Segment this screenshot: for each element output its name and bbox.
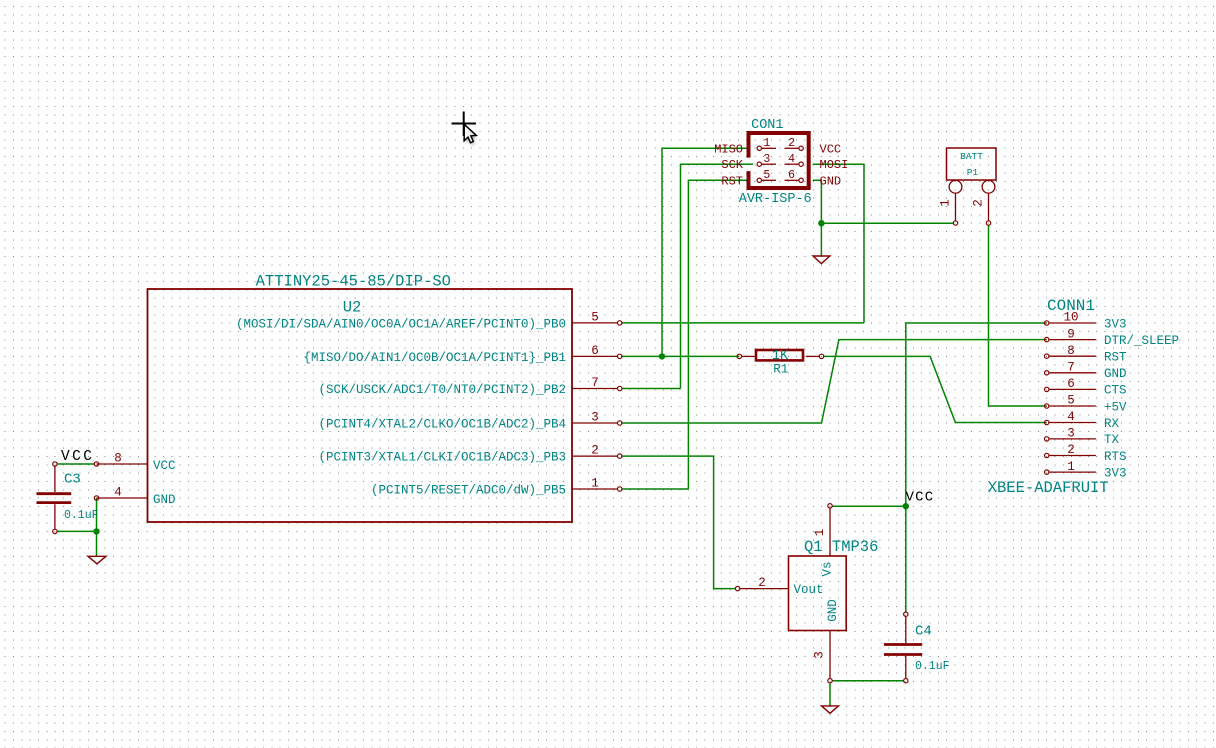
svg-text:MOSI: MOSI [820, 158, 849, 172]
svg-text:6: 6 [1067, 377, 1075, 391]
ground [88, 556, 106, 564]
P1 pin 2 [982, 180, 995, 193]
svg-text:4: 4 [788, 153, 795, 166]
wire U2 pin1 PB5 horizontal [622, 488, 689, 490]
svg-text:VCC: VCC [153, 459, 176, 473]
CONN1 pin 8 RST [1045, 354, 1049, 358]
svg-text:6: 6 [788, 169, 795, 182]
svg-text:U2: U2 [343, 299, 362, 317]
wire U2 pin3 PB4 to CONN1 DTR/_SLEEP with diagonal [622, 340, 1047, 423]
svg-text:GND: GND [153, 493, 176, 507]
svg-text:6: 6 [591, 344, 599, 358]
wire R1 right to CONN1 RX with diagonal [824, 356, 1047, 422]
ground [822, 706, 839, 713]
IC U2 ATTINY25-45-85/DIP-SO body [148, 289, 573, 522]
wire BATT pin2 to CONN1 +5V [989, 225, 1047, 406]
wire CON1 GND pin6 down to ground [813, 180, 822, 256]
svg-text:Vs: Vs [821, 561, 835, 576]
svg-text:VCC: VCC [820, 142, 842, 156]
svg-text:1: 1 [591, 477, 599, 491]
svg-text:BATT: BATT [960, 151, 983, 162]
svg-text:+5V: +5V [1104, 400, 1127, 414]
R1 pin 1 [737, 354, 741, 358]
svg-text:3: 3 [763, 153, 770, 166]
svg-text:3: 3 [1067, 427, 1075, 441]
svg-text:9: 9 [1067, 327, 1075, 341]
wire U2 pin7 PB2 horizontal [622, 388, 681, 390]
pin circle VCC flag [53, 462, 57, 466]
wire MISO from CON1 pin1 to U2 PB1 net [662, 148, 747, 356]
svg-text:Q1 TMP36: Q1 TMP36 [804, 538, 878, 556]
wire RST from CON1 pin5 to U2 PB5 net [688, 180, 746, 489]
svg-text:CTS: CTS [1104, 384, 1127, 398]
svg-text:1: 1 [813, 529, 827, 537]
svg-text:5: 5 [763, 169, 770, 182]
wire MOSI from CON1 pin4 to U2 PB0 net [813, 164, 864, 323]
connector P1 BATT body [947, 148, 997, 180]
U2 pin 7 PB2 [572, 388, 618, 390]
svg-text:GND: GND [820, 174, 842, 188]
wire GND junction to BATT pin1 [821, 222, 953, 224]
svg-text:7: 7 [591, 376, 599, 390]
CON1 pin 4 [799, 162, 803, 166]
wire U2 pin5 PB0 horizontal [622, 322, 864, 324]
U2 pin 3 PB4 [572, 422, 618, 424]
wire VCC vertical to CONN1 3V3 pin10 and C4 [906, 323, 1047, 612]
U2 pin 5 PB0 [572, 322, 618, 324]
svg-text:GND: GND [1104, 367, 1127, 381]
CONN1 pin 3 TX [1045, 437, 1049, 441]
wire SCK from CON1 pin3 to U2 PB2 net [681, 164, 747, 388]
svg-text:R1: R1 [773, 363, 788, 377]
svg-text:CON1: CON1 [751, 118, 783, 133]
svg-text:0.1uF: 0.1uF [64, 509, 99, 522]
svg-text:Vout: Vout [794, 583, 824, 597]
wire C3 bottom to ground junction [57, 530, 96, 532]
pin circle C3 pin2 [53, 529, 57, 533]
U2 pin 6 PB1 [572, 355, 618, 357]
ground [813, 256, 830, 264]
U2 pin 8 VCC [97, 463, 148, 465]
svg-text:2: 2 [972, 199, 986, 207]
CON1 pin 3 [757, 162, 761, 166]
capacitor C4 [905, 616, 907, 643]
svg-text:5: 5 [1067, 394, 1075, 408]
P1 pin 1 [949, 180, 962, 193]
capacitor C3 [54, 466, 56, 492]
svg-text:RTS: RTS [1104, 450, 1127, 464]
svg-text:(PCINT5/RESET/ADC0/dW)_PB5: (PCINT5/RESET/ADC0/dW)_PB5 [371, 484, 566, 498]
R1 pin 2 [819, 354, 823, 358]
svg-text:3V3: 3V3 [1104, 317, 1127, 331]
svg-text:2: 2 [788, 137, 795, 150]
U2 pin 4 GND [97, 497, 148, 499]
CONN1 pin 6 CTS [1045, 387, 1049, 391]
CON1 pin 1 [757, 146, 761, 150]
svg-text:(SCK/USCK/ADC1/T0/NT0/PCINT2)_: (SCK/USCK/ADC1/T0/NT0/PCINT2)_PB2 [318, 383, 566, 397]
CONN1 pin 4 RX [1045, 420, 1049, 424]
svg-text:4: 4 [1067, 410, 1075, 424]
wire U2 pin4 down to ground junction [96, 498, 98, 531]
U2 pin 1 PB5 [572, 488, 618, 490]
svg-text:8: 8 [114, 452, 122, 466]
wire U2 pin2 PB3 to Q1 Vout [622, 456, 735, 588]
U2 pin 2 PB3 [572, 455, 618, 457]
sensor Q1 TMP36 body [789, 556, 847, 631]
svg-text:(PCINT4/XTAL2/CLKO/OC1B/ADC2)_: (PCINT4/XTAL2/CLKO/OC1B/ADC2)_PB4 [318, 418, 566, 432]
CON1 pin 2 [799, 146, 803, 150]
svg-text:(PCINT3/XTAL1/CLKI/OC1B/ADC3)_: (PCINT3/XTAL1/CLKI/OC1B/ADC3)_PB3 [318, 451, 566, 465]
svg-text:0.1uF: 0.1uF [915, 660, 950, 673]
svg-text:XBEE-ADAFRUIT: XBEE-ADAFRUIT [988, 479, 1109, 497]
svg-text:(MOSI/DI/SDA/AIN0/OC0A/OC1A/AR: (MOSI/DI/SDA/AIN0/OC0A/OC1A/AREF/PCINT0)… [236, 317, 566, 331]
connector CON1 AVR-ISP-6 body [749, 133, 809, 188]
svg-text:SCK: SCK [721, 158, 743, 172]
Q1 pin 2 Vout [740, 588, 789, 590]
svg-text:MISO: MISO [714, 142, 743, 156]
svg-text:10: 10 [1063, 311, 1078, 325]
wire VCC flag to U2 pin8 [57, 463, 94, 465]
wire Q1 GND pin3 to C4 bottom [832, 680, 903, 682]
svg-text:3: 3 [591, 411, 599, 425]
svg-text:7: 7 [1067, 361, 1075, 375]
junction at C3 ground [93, 528, 99, 534]
svg-text:TX: TX [1104, 433, 1120, 447]
CONN1 pin 10 3V3 [1045, 321, 1049, 325]
svg-text:1: 1 [939, 199, 953, 207]
wire junction down to ground symbol [96, 531, 98, 556]
svg-text:P1: P1 [967, 167, 979, 178]
CONN1 pin 2 RTS [1045, 453, 1049, 457]
CONN1 pin 9 DTR/_SLEEP [1045, 337, 1049, 341]
svg-text:RST: RST [1104, 351, 1127, 365]
junction at U2 PB1 / MISO [659, 353, 665, 359]
CONN1 pin 5 +5V [1045, 404, 1049, 408]
svg-text:C4: C4 [915, 624, 932, 640]
svg-text:{MISO/DO/AIN1/OC0B/OC1A/PCINT1: {MISO/DO/AIN1/OC0B/OC1A/PCINT1}_PB1 [303, 351, 566, 365]
svg-text:5: 5 [591, 310, 599, 324]
svg-text:AVR-ISP-6: AVR-ISP-6 [739, 192, 812, 207]
resistor R1 1K body [756, 350, 803, 360]
svg-text:RST: RST [721, 174, 743, 188]
svg-text:2: 2 [591, 444, 599, 458]
svg-text:4: 4 [114, 486, 122, 500]
svg-text:1: 1 [1067, 460, 1075, 474]
wire Q1 GND pin3 down to ground [829, 683, 831, 706]
wire U2 pin6 PB1 to R1 left [622, 355, 739, 357]
Q1 pin 1 Vs [829, 508, 831, 556]
CONN1 pin 1 3V3 [1045, 470, 1049, 474]
svg-text:3: 3 [813, 651, 827, 659]
svg-text:2: 2 [1067, 443, 1075, 457]
svg-text:DTR/_SLEEP: DTR/_SLEEP [1104, 334, 1179, 348]
svg-text:8: 8 [1067, 344, 1075, 358]
junction at CON1 GND / BATT pin1 [818, 220, 824, 226]
CONN1 pin 7 GND [1045, 371, 1049, 375]
junction at VCC near Q1 [903, 503, 909, 509]
svg-text:VCC: VCC [906, 490, 935, 506]
svg-text:GND: GND [826, 599, 840, 622]
wire Q1 Vs to VCC junction [832, 505, 903, 507]
editor crosshair cursor [452, 112, 478, 146]
svg-text:1: 1 [763, 137, 770, 150]
svg-text:C3: C3 [64, 472, 81, 488]
svg-text:RX: RX [1104, 417, 1120, 431]
svg-text:2: 2 [758, 576, 766, 590]
svg-text:ATTINY25-45-85/DIP-SO: ATTINY25-45-85/DIP-SO [256, 273, 451, 291]
CON1 pin 5 [757, 178, 761, 182]
CON1 pin 6 [799, 178, 803, 182]
Q1 pin 3 GND [829, 631, 831, 679]
svg-text:VCC: VCC [61, 449, 94, 465]
